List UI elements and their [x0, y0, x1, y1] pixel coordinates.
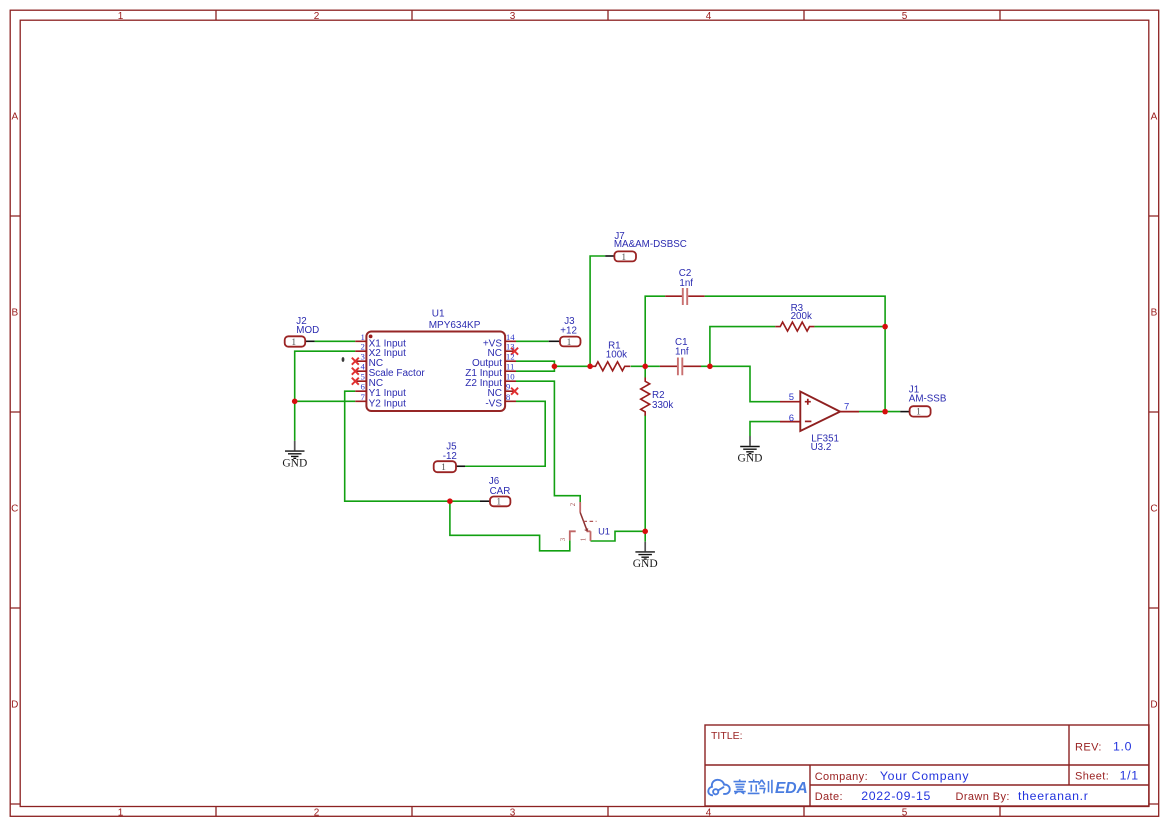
- svg-text:GND: GND: [633, 558, 658, 570]
- svg-text:5: 5: [360, 372, 365, 382]
- svg-text:10: 10: [506, 372, 515, 382]
- svg-text:TITLE:: TITLE:: [711, 730, 743, 742]
- svg-text:2: 2: [314, 808, 320, 819]
- svg-text:200k: 200k: [791, 311, 812, 322]
- svg-text:A: A: [1151, 111, 1158, 122]
- svg-text:CAR: CAR: [490, 486, 511, 497]
- svg-text:2022-09-15: 2022-09-15: [861, 789, 931, 803]
- svg-text:1: 1: [496, 498, 501, 508]
- svg-text:1.0: 1.0: [1113, 740, 1132, 754]
- svg-text:C: C: [11, 503, 18, 514]
- svg-text:Sheet:: Sheet:: [1075, 770, 1109, 782]
- svg-text:GND: GND: [738, 453, 763, 465]
- svg-text:C: C: [1150, 503, 1157, 514]
- svg-text:2: 2: [360, 342, 364, 352]
- svg-text:4: 4: [706, 808, 712, 819]
- svg-text:1: 1: [291, 338, 296, 348]
- svg-text:7: 7: [844, 401, 849, 412]
- svg-text:+12: +12: [560, 325, 577, 336]
- svg-text:4: 4: [360, 362, 365, 372]
- svg-text:1nf: 1nf: [675, 347, 689, 358]
- svg-text:-12: -12: [443, 451, 457, 462]
- svg-text:Company:: Company:: [815, 771, 868, 783]
- svg-text:100k: 100k: [606, 349, 627, 360]
- svg-text:2: 2: [314, 11, 320, 22]
- svg-text:2: 2: [570, 502, 577, 506]
- svg-text:U1: U1: [598, 526, 610, 536]
- svg-text:9: 9: [506, 382, 511, 392]
- svg-text:U3.2: U3.2: [811, 442, 832, 453]
- svg-text:1: 1: [360, 332, 364, 342]
- svg-text:D: D: [11, 699, 18, 710]
- svg-text:1: 1: [118, 808, 124, 819]
- svg-text:Your Company: Your Company: [880, 769, 969, 783]
- svg-text:5: 5: [902, 11, 908, 22]
- svg-text:3: 3: [510, 808, 516, 819]
- svg-text:7: 7: [360, 392, 365, 402]
- svg-text:Date:: Date:: [815, 791, 843, 803]
- svg-text:14: 14: [506, 332, 515, 342]
- svg-text:Drawn By:: Drawn By:: [956, 791, 1010, 803]
- svg-text:B: B: [1151, 307, 1158, 318]
- svg-text:5: 5: [902, 808, 908, 819]
- svg-text:EDA: EDA: [775, 780, 808, 797]
- svg-text:1/1: 1/1: [1120, 768, 1139, 782]
- svg-text:D: D: [1150, 699, 1157, 710]
- svg-text:1: 1: [441, 463, 446, 473]
- svg-text:theeranan.r: theeranan.r: [1018, 789, 1089, 803]
- svg-text:1nf: 1nf: [679, 278, 693, 289]
- svg-text:U1: U1: [432, 308, 445, 319]
- svg-text:4: 4: [706, 11, 712, 22]
- svg-text:AM-SSB: AM-SSB: [909, 394, 947, 405]
- svg-text:5: 5: [789, 392, 794, 403]
- svg-text:8: 8: [506, 392, 511, 402]
- svg-text:6: 6: [789, 413, 794, 424]
- svg-text:12: 12: [506, 352, 515, 362]
- svg-text:1: 1: [916, 408, 921, 418]
- svg-text:1: 1: [118, 11, 124, 22]
- svg-text:1: 1: [580, 538, 587, 541]
- svg-text:MOD: MOD: [296, 325, 319, 336]
- svg-text:3: 3: [560, 537, 567, 541]
- svg-text:13: 13: [506, 342, 515, 352]
- svg-text:1: 1: [621, 253, 626, 263]
- svg-text:6: 6: [360, 382, 365, 392]
- svg-text:B: B: [11, 307, 18, 318]
- svg-text:MPY634KP: MPY634KP: [429, 320, 481, 331]
- svg-text:330k: 330k: [652, 400, 673, 411]
- svg-text:-VS: -VS: [485, 398, 502, 409]
- svg-text:REV:: REV:: [1075, 742, 1102, 754]
- svg-text:A: A: [11, 111, 18, 122]
- svg-text:GND: GND: [282, 457, 307, 469]
- svg-text:Y2 Input: Y2 Input: [369, 398, 406, 409]
- svg-text:3: 3: [360, 352, 365, 362]
- svg-text:MA&AM-DSBSC: MA&AM-DSBSC: [614, 239, 687, 250]
- svg-text:11: 11: [506, 362, 514, 372]
- svg-text:1: 1: [567, 338, 572, 348]
- svg-text:3: 3: [510, 11, 516, 22]
